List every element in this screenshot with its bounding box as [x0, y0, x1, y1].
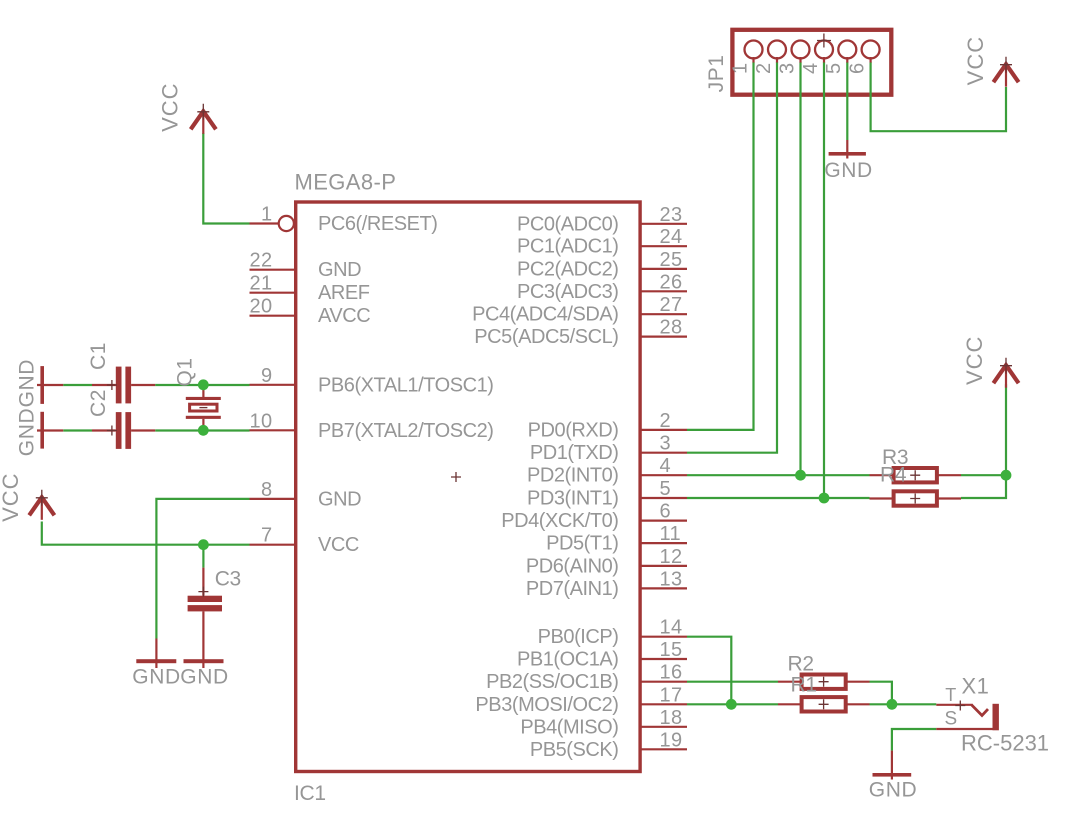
- svg-text:PD3(INT1): PD3(INT1): [527, 488, 619, 510]
- wire R2 right down: [870, 682, 892, 705]
- supply symbol VCC top-left arrow: [191, 111, 216, 129]
- pin 20 stub: [250, 315, 295, 317]
- svg-text:14: 14: [660, 617, 683, 639]
- svg-text:PD7(AIN1): PD7(AIN1): [526, 578, 619, 600]
- svg-text:MEGA8-P: MEGA8-P: [295, 170, 397, 195]
- svg-text:5: 5: [823, 62, 845, 74]
- svg-text:10: 10: [249, 411, 272, 433]
- wire JP1-4 down: [823, 63, 825, 499]
- svg-text:13: 13: [660, 568, 683, 590]
- pin 19 stub: [640, 748, 687, 750]
- svg-text:24: 24: [660, 226, 683, 248]
- pin 3 stub: [640, 452, 687, 454]
- svg-text:20: 20: [249, 296, 272, 318]
- svg-text:R4: R4: [880, 464, 907, 487]
- junction node 8: [887, 699, 898, 710]
- pin 7 stub: [250, 544, 295, 546]
- svg-text:PB2(SS/OC1B): PB2(SS/OC1B): [486, 671, 618, 693]
- pin 1 PC6(/RESET) stub: [250, 216, 294, 231]
- svg-text:GND: GND: [180, 666, 228, 689]
- svg-text:PC3(ADC3): PC3(ADC3): [517, 281, 619, 303]
- wire R4 right up VCC column: [961, 384, 1006, 498]
- supply symbol VCC top-right arrow: [993, 64, 1018, 82]
- svg-text:PB6(XTAL1/TOSC1): PB6(XTAL1/TOSC1): [318, 374, 493, 396]
- JP1 pad 3: [792, 41, 810, 59]
- svg-text:3: 3: [660, 433, 672, 455]
- pin 25 stub: [640, 268, 687, 270]
- svg-text:PC1(ADC1): PC1(ADC1): [517, 236, 619, 258]
- svg-text:PB7(XTAL2/TOSC2): PB7(XTAL2/TOSC2): [318, 420, 493, 442]
- resistor R3: [870, 468, 962, 482]
- wire pin8 to GND: [156, 499, 249, 639]
- connector JP1 body: [732, 30, 891, 95]
- svg-text:AVCC: AVCC: [318, 305, 370, 327]
- wire row10 C2 to pin10: [155, 429, 249, 431]
- svg-text:PC5(ADC5/SCL): PC5(ADC5/SCL): [474, 326, 618, 348]
- pin 9 stub: [250, 384, 295, 386]
- wire R1 right to X1 tip: [870, 703, 937, 705]
- svg-text:25: 25: [660, 249, 683, 271]
- svg-text:PB4(MISO): PB4(MISO): [520, 716, 618, 738]
- wire PD3 row to R4: [687, 497, 870, 499]
- svg-text:15: 15: [660, 639, 683, 661]
- svg-text:1: 1: [261, 204, 273, 226]
- wire JP1-6 to VCC top-right: [871, 63, 1006, 132]
- svg-text:2: 2: [660, 410, 672, 432]
- svg-text:PD4(XCK/T0): PD4(XCK/T0): [501, 510, 618, 532]
- svg-text:VCC: VCC: [158, 82, 183, 131]
- IC1 origin cross: [451, 472, 461, 482]
- IC U IC1 MEGA8-P body: [296, 202, 640, 772]
- pin 21 stub: [250, 292, 295, 294]
- pin 17 stub: [640, 703, 687, 705]
- JP1 pad 6: [862, 41, 880, 59]
- junction node 5: [819, 493, 830, 504]
- svg-text:GND: GND: [869, 779, 917, 802]
- svg-text:17: 17: [660, 684, 683, 706]
- svg-text:GND: GND: [132, 666, 180, 689]
- svg-text:PC4(ADC4/SDA): PC4(ADC4/SDA): [472, 304, 618, 326]
- svg-text:PB5(SCK): PB5(SCK): [530, 739, 619, 761]
- svg-text:R2: R2: [788, 653, 814, 676]
- pin 14 stub: [640, 636, 687, 638]
- svg-text:GND: GND: [318, 488, 361, 510]
- pin 16 stub: [640, 681, 687, 683]
- pin 26 stub: [640, 290, 687, 292]
- svg-text:PD6(AIN0): PD6(AIN0): [526, 555, 619, 577]
- svg-text:6: 6: [660, 501, 672, 523]
- pin 8 stub: [250, 498, 295, 500]
- svg-text:PC2(ADC2): PC2(ADC2): [517, 258, 619, 280]
- svg-text:PC6(/RESET): PC6(/RESET): [318, 213, 438, 235]
- pin 6 stub: [640, 519, 687, 521]
- svg-text:11: 11: [660, 523, 682, 545]
- wire R3 right to VCC column: [961, 474, 1006, 476]
- pin 5 stub: [640, 497, 687, 499]
- wire PB0 to PB3 net: [687, 637, 731, 705]
- svg-text:PB1(OC1A): PB1(OC1A): [517, 649, 619, 671]
- JP1 pad 1: [745, 41, 763, 59]
- JP1 pad 4: [815, 41, 833, 59]
- svg-text:VCC: VCC: [962, 336, 987, 385]
- svg-text:C2: C2: [87, 389, 110, 417]
- svg-text:T: T: [945, 685, 956, 705]
- svg-text:R1: R1: [791, 673, 817, 696]
- resistor R1: [778, 697, 870, 711]
- svg-text:PD0(RXD): PD0(RXD): [528, 419, 619, 441]
- svg-text:21: 21: [249, 273, 272, 295]
- pin 4 stub: [640, 474, 687, 476]
- svg-text:1: 1: [729, 62, 751, 74]
- pin 15 stub: [640, 658, 687, 660]
- capacitor C1: [92, 367, 155, 404]
- svg-text:27: 27: [660, 294, 683, 316]
- svg-text:12: 12: [660, 546, 683, 568]
- pin 11 stub: [640, 542, 687, 544]
- wire junction to C3: [202, 545, 204, 568]
- gnd symbol below C3: [184, 611, 224, 668]
- gnd symbol left row10 (rotated): [37, 412, 63, 449]
- wire PB2 row to R2: [687, 681, 778, 683]
- svg-text:22: 22: [249, 250, 272, 272]
- wire VCC left to pin7: [42, 522, 250, 545]
- svg-text:2: 2: [753, 62, 775, 74]
- resistor R2: [778, 675, 870, 689]
- junction node 4: [795, 470, 806, 481]
- wire PD2 row to R3: [687, 474, 870, 476]
- svg-text:4: 4: [800, 62, 822, 74]
- svg-text:VCC: VCC: [318, 534, 359, 556]
- pin 10 stub: [250, 429, 295, 431]
- JP1 origin cross: [817, 34, 831, 48]
- svg-text:GND: GND: [15, 408, 38, 456]
- svg-text:GND: GND: [15, 359, 38, 407]
- svg-text:PB0(ICP): PB0(ICP): [538, 626, 619, 648]
- pin 12 stub: [640, 565, 687, 567]
- pin 28 stub: [640, 336, 687, 338]
- wire JP1-3 down: [799, 63, 801, 476]
- junction node 3: [198, 539, 209, 550]
- supply symbol VCC left arrow: [29, 497, 54, 515]
- svg-text:PD5(T1): PD5(T1): [546, 533, 618, 555]
- svg-text:VCC: VCC: [963, 36, 988, 85]
- gnd symbol bottom-left net of pin8: [136, 639, 176, 669]
- junction node 7: [726, 699, 737, 710]
- junction node 1: [198, 379, 209, 390]
- svg-text:IC1: IC1: [294, 782, 326, 805]
- wire row9 C1 to pin9: [155, 384, 249, 386]
- svg-text:19: 19: [660, 729, 683, 751]
- pin 18 stub: [640, 726, 687, 728]
- wire PB3 row to R1: [687, 703, 778, 705]
- svg-text:PD1(TXD): PD1(TXD): [530, 442, 619, 464]
- svg-text:RC-5231: RC-5231: [961, 731, 1049, 756]
- pin 13 stub: [640, 587, 687, 589]
- svg-text:6: 6: [846, 62, 868, 74]
- resistor R4: [870, 491, 962, 505]
- svg-text:8: 8: [261, 479, 273, 501]
- svg-text:23: 23: [660, 204, 683, 226]
- svg-text:PB3(MOSI/OC2): PB3(MOSI/OC2): [475, 694, 618, 716]
- svg-text:X1: X1: [962, 674, 990, 699]
- pin 22 stub: [250, 269, 295, 271]
- supply symbol VCC mid-right arrow: [993, 365, 1018, 383]
- svg-text:VCC: VCC: [0, 472, 23, 521]
- svg-text:C1: C1: [87, 342, 110, 370]
- svg-text:S: S: [944, 709, 957, 730]
- JP1 pad 5: [838, 41, 856, 59]
- wire VCC top-left to pin1: [203, 133, 249, 224]
- svg-text:16: 16: [660, 662, 683, 684]
- wire row9 gnd to C1: [63, 384, 92, 386]
- crystal Q1: [186, 387, 221, 431]
- wire JP1-2 to PD1: [687, 63, 777, 453]
- pin 2 stub: [640, 429, 687, 431]
- capacitor C3: [188, 568, 222, 612]
- svg-text:Q1: Q1: [174, 357, 197, 386]
- svg-text:5: 5: [660, 478, 672, 500]
- pin 27 stub: [640, 313, 687, 315]
- svg-text:C3: C3: [215, 568, 241, 591]
- svg-text:9: 9: [261, 365, 273, 387]
- pin 23 stub: [640, 223, 687, 225]
- svg-text:AREF: AREF: [318, 282, 370, 304]
- svg-text:GND: GND: [824, 159, 872, 182]
- svg-text:JP1: JP1: [705, 54, 728, 92]
- svg-text:PC0(ADC0): PC0(ADC0): [517, 213, 619, 235]
- wire X1 sleeve to GND: [892, 729, 936, 751]
- junction node 6: [1001, 470, 1012, 481]
- junction node 2: [198, 425, 209, 436]
- svg-text:7: 7: [261, 525, 273, 547]
- connector X1 audio jack RC-5231: [936, 701, 999, 731]
- gnd symbol below X1: [873, 751, 912, 780]
- wire JP1-5 to GND: [846, 63, 848, 141]
- JP1 pad 2: [768, 41, 786, 59]
- svg-text:PD2(INT0): PD2(INT0): [527, 465, 619, 487]
- svg-text:28: 28: [660, 317, 683, 339]
- svg-text:GND: GND: [318, 259, 361, 281]
- wire row10 gnd to C2: [63, 429, 92, 431]
- gnd symbol below JP1 pin5: [829, 140, 866, 159]
- svg-text:4: 4: [660, 455, 672, 477]
- JP1 pad stubs: [752, 57, 754, 63]
- svg-text:3: 3: [776, 62, 798, 74]
- capacitor C2: [92, 412, 155, 449]
- gnd symbol left row9 (rotated): [37, 366, 63, 404]
- pin 24 stub: [640, 245, 687, 247]
- wire JP1-1 to PD0: [687, 63, 754, 430]
- svg-text:18: 18: [660, 707, 683, 729]
- svg-text:26: 26: [660, 271, 683, 293]
